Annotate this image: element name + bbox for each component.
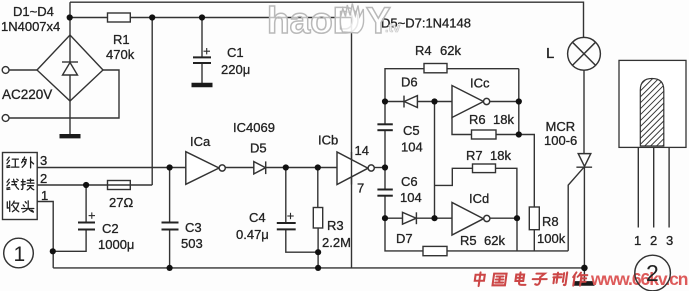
svg-text:62k: 62k [440, 43, 461, 58]
inverter ICd [452, 203, 490, 236]
watermark red chinese zhongguo dianzi zhizuo [474, 272, 588, 286]
svg-text:1000μ: 1000μ [98, 237, 134, 252]
svg-text:ICc: ICc [470, 76, 490, 91]
node 1 circle [4, 238, 34, 268]
junction VCC / 27ohm feed [149, 14, 155, 20]
capacitor C6 104 plates [377, 190, 392, 196]
wire R6 right [496, 134, 519, 136]
module leg 3 [668, 147, 670, 227]
wire C1 top lead [201, 18, 203, 58]
svg-text:503: 503 [181, 236, 203, 251]
svg-text:C5: C5 [403, 123, 420, 138]
svg-text:2: 2 [40, 171, 47, 186]
module leg 2 [653, 147, 655, 227]
wire D5 to ICb [266, 167, 337, 169]
wire C2 top lead [85, 185, 87, 222]
svg-text:7: 7 [357, 181, 364, 196]
wire C2 bottom lead to pin1 [53, 230, 86, 252]
svg-text:C3: C3 [185, 220, 202, 235]
wire R4 right down to ICc out [518, 69, 520, 135]
svg-text:R4: R4 [415, 43, 432, 58]
junction signal / C4 [283, 164, 289, 170]
wire R8 bottom lead [533, 230, 535, 251]
resistor R1 470k [108, 13, 131, 22]
wire ICb out [374, 167, 385, 169]
capacitor C2 1000u plates [78, 223, 95, 230]
bottom ground rail [53, 267, 584, 269]
wire C3 top lead [169, 168, 171, 223]
svg-text:104: 104 [400, 190, 422, 205]
wire ICd out [490, 217, 517, 219]
diode D7 [403, 212, 417, 224]
resistor R7 18k [473, 164, 496, 173]
junction rail / C3 [167, 265, 173, 271]
svg-text:C6: C6 [401, 174, 418, 189]
wire VCC line y=17.5 [69, 17, 352, 19]
svg-text:1: 1 [14, 243, 26, 266]
junction ICb output node [382, 164, 388, 170]
svg-text:14: 14 [355, 143, 369, 158]
junction R6 right / R8 feed [516, 131, 522, 137]
svg-text:R3: R3 [327, 218, 344, 233]
wire D6 left [385, 101, 404, 103]
wire pin2 to 27ohm [37, 184, 152, 186]
junction node C6-D7 [382, 215, 388, 221]
wire R6 left jog [452, 118, 472, 135]
svg-text:IC4069: IC4069 [233, 120, 275, 135]
resistor 27ohm [108, 181, 131, 190]
IR receiver box [3, 153, 38, 220]
svg-text:MCR: MCR [546, 119, 576, 134]
junction pin1 / C2 bottom [50, 248, 56, 254]
svg-text:100-6: 100-6 [544, 133, 577, 148]
wire top rail from bridge+ to lamp [70, 2, 584, 37]
wire R6 node to R8 top [519, 135, 535, 208]
junction signal / R3 [315, 164, 321, 170]
svg-text:2: 2 [646, 260, 659, 286]
junction ICd input node [431, 215, 437, 221]
svg-text:.tv: .tv [385, 20, 401, 35]
svg-text:D7: D7 [396, 231, 413, 246]
junction ICc input node [431, 98, 437, 104]
wire MCR cathode to rail [583, 167, 585, 268]
svg-text:R8: R8 [542, 214, 559, 229]
junction ICd output [514, 215, 520, 221]
wire ICc out [490, 101, 519, 103]
module leg 1 [637, 147, 639, 227]
wire R7 right down [496, 168, 517, 218]
wire common input vertical [434, 102, 436, 219]
wire pin1 down to rail [37, 202, 53, 268]
wire bridge minus down [69, 101, 71, 134]
wire AC bottom to bridge right [9, 70, 119, 118]
svg-text:R5: R5 [460, 233, 477, 248]
wire R5 bottom line [385, 218, 568, 251]
svg-text:1: 1 [634, 233, 641, 248]
wire pin14-7 over ICb redraw [351, 152, 353, 185]
capacitor C1 220u plates [193, 57, 211, 63]
junction node C5-D6-R4 [382, 98, 388, 104]
svg-text:2.2M: 2.2M [322, 235, 351, 250]
watermark hand glyph [340, 4, 363, 34]
svg-text:L: L [546, 45, 554, 62]
wire lamp to MCR [583, 70, 585, 153]
junction bridge+ / R1 left [67, 14, 73, 20]
wire R7 left jog [435, 168, 473, 185]
svg-text:27Ω: 27Ω [109, 195, 133, 210]
svg-text:3: 3 [666, 233, 673, 248]
wire C4 bottom lead [286, 230, 318, 253]
junction signal / C3 [167, 164, 173, 170]
resistor R3 2.2M [313, 208, 322, 229]
wire pin3 to ICa [37, 167, 186, 169]
char hong [7, 157, 19, 167]
char zi [532, 274, 548, 285]
svg-text:2: 2 [650, 233, 657, 248]
svg-text:ICb: ICb [318, 133, 338, 148]
wire ICd out down to R5 line [516, 218, 518, 251]
inverter ICc [452, 86, 490, 118]
diode D6 [404, 96, 417, 108]
wire bridge top vertical [69, 2, 71, 35]
wire MCR gate [568, 167, 584, 251]
IR module dome hatched [640, 79, 664, 147]
resistor R8 100k [529, 207, 539, 230]
svg-text:1: 1 [41, 188, 48, 203]
wire C3 bottom lead [169, 230, 171, 268]
C4 plus sign [287, 213, 293, 219]
wire D6 right to ICc [417, 101, 452, 103]
junction rail / R3 [315, 265, 321, 271]
AC terminal top [2, 67, 9, 74]
thyristor MCR 100-6 [576, 154, 592, 168]
wire AC top to bridge [9, 69, 37, 71]
C1 plus sign [204, 48, 211, 54]
svg-text:0.47μ: 0.47μ [236, 227, 269, 242]
char wai [22, 157, 34, 168]
junction rail / MCR cathode [581, 265, 588, 272]
junction pin2 / C2 [83, 182, 89, 188]
ground below C1 [192, 83, 213, 87]
char tou [22, 201, 34, 212]
char jie [21, 179, 34, 190]
svg-text:C4: C4 [249, 210, 266, 225]
capacitor C4 plates [277, 223, 296, 229]
resistor R6 18k [472, 130, 497, 139]
wire D7 left [385, 217, 403, 219]
char zhi [552, 272, 567, 285]
char zhong [474, 272, 485, 286]
svg-text:3: 3 [40, 153, 47, 168]
bridge rectifier D1-D4 [37, 35, 103, 101]
char xian [7, 179, 19, 189]
svg-text:www.66kv.cn: www.66kv.cn [590, 269, 688, 289]
junction ICc output [516, 98, 522, 104]
svg-text:D6: D6 [401, 75, 418, 90]
wire C1 bottom lead [201, 63, 203, 83]
svg-text:C2: C2 [102, 221, 119, 236]
svg-text:470k: 470k [106, 47, 135, 62]
char zuo [572, 272, 588, 285]
inverter ICb [337, 152, 374, 185]
ground bottom right [574, 281, 595, 286]
IR module package box [619, 60, 686, 147]
wire C4 top lead [285, 168, 287, 223]
capacitor C3 503 plates [162, 223, 179, 230]
receiver chinese label hongwai xian jie shou tou [7, 157, 34, 212]
svg-text:AC220V: AC220V [2, 87, 52, 102]
wire C5 branch [384, 102, 386, 168]
char shou [7, 201, 18, 212]
svg-text:100k: 100k [537, 231, 566, 246]
watermark haoDIY [267, 0, 401, 41]
junction VCC / C1 [199, 14, 205, 20]
ground below bridge [60, 134, 81, 138]
svg-text:D5: D5 [250, 141, 267, 156]
lamp L [568, 37, 601, 70]
wire D7 right to ICd [416, 217, 452, 219]
resistor R5 62k [423, 246, 447, 255]
capacitor C5 104 plates [377, 124, 392, 130]
svg-text:C1: C1 [227, 45, 244, 60]
svg-text:18k: 18k [490, 148, 511, 163]
inverter ICa [186, 152, 225, 185]
AC terminal bottom [2, 115, 9, 122]
char dian [515, 272, 527, 284]
wire R3 top lead [317, 168, 319, 208]
wire C6 branch [384, 168, 386, 219]
svg-text:1N4007x4: 1N4007x4 [1, 19, 60, 34]
svg-text:62k: 62k [484, 233, 505, 248]
C2 plus sign [89, 212, 95, 218]
wire IC4069 pin14-pin7 vertical [351, 18, 353, 269]
svg-text:104: 104 [401, 140, 423, 155]
wire ICa out to D5 [225, 167, 254, 169]
svg-text:R7: R7 [466, 148, 483, 163]
wire R3 bottom lead [317, 228, 319, 268]
resistor R4 62k [424, 64, 447, 73]
wire node to R4 [385, 69, 519, 102]
svg-text:R1: R1 [113, 32, 130, 47]
wire VCC drop to 27ohm [151, 18, 153, 186]
svg-text:18k: 18k [493, 112, 514, 127]
diode D5 [254, 161, 266, 174]
char guo [493, 274, 507, 286]
svg-text:ICd: ICd [469, 191, 489, 206]
wire ground stub bottom right [583, 268, 585, 282]
node 2 circle [635, 255, 671, 291]
svg-text:D1~D4: D1~D4 [13, 4, 54, 19]
svg-text:R6: R6 [469, 112, 486, 127]
svg-text:220μ: 220μ [221, 62, 250, 77]
junction C4 bottom / R3 bottom [315, 249, 321, 255]
svg-text:ICa: ICa [190, 134, 211, 149]
